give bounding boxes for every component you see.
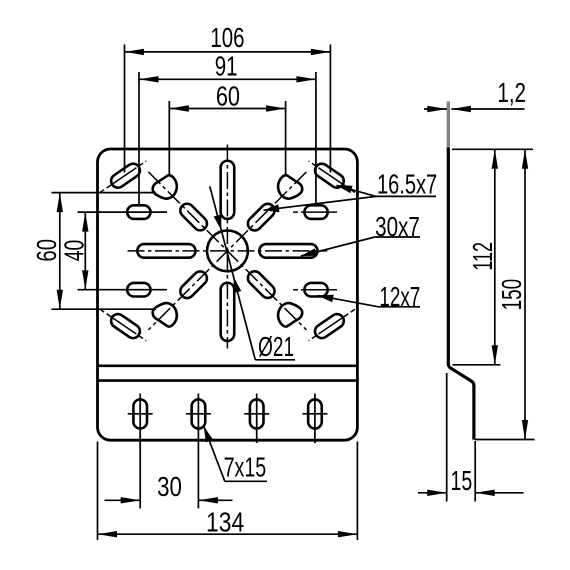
vertical centerline xyxy=(226,145,228,349)
leader 16.5x7 lines xyxy=(337,185,377,196)
bottom slot 7x15 #2 xyxy=(192,399,206,428)
slot 16.5x7 lower-right diagonal xyxy=(245,269,277,301)
svg-text:Ø21: Ø21 xyxy=(258,333,294,363)
corner slot 16.5x7 top-left xyxy=(108,161,142,190)
leader 30x7 lines xyxy=(301,237,375,256)
bottom slot 7x15 #3 xyxy=(250,399,264,428)
leader 16.5x7 arrows xyxy=(337,185,353,193)
slot 30x7 left xyxy=(137,244,195,258)
dim 1,2 line segments xyxy=(424,108,447,110)
oval 12x7 upper-right xyxy=(304,205,327,219)
bottom slot horizontal tick #4 xyxy=(302,413,327,415)
svg-text:91: 91 xyxy=(215,52,238,83)
oval 12x7 lower-left xyxy=(127,283,150,297)
central hole D21 xyxy=(207,231,248,272)
dim 134 extension lines xyxy=(97,442,99,541)
dim 40 left extension lines xyxy=(78,211,168,213)
corner slot centerline top-right xyxy=(309,161,355,193)
dim 134 arrows xyxy=(98,531,118,537)
svg-text:15: 15 xyxy=(451,466,473,497)
corner slot 16.5x7 bottom-left xyxy=(108,311,142,340)
slot 16.5x7 lower-left diagonal xyxy=(177,269,209,301)
dim 106 extension lines xyxy=(124,45,126,173)
dim 112 arrows xyxy=(492,149,498,169)
bottom slot 7x15 #1 xyxy=(133,399,147,428)
leader 7x15 line xyxy=(204,427,225,482)
bottom slot centerline #3 xyxy=(256,394,258,444)
corner slot centerline bottom-right xyxy=(309,309,355,341)
dim 60 left extension lines xyxy=(52,192,157,194)
bottom slot horizontal tick #2 xyxy=(186,413,211,415)
diagonal centerline TR-BL xyxy=(148,172,306,330)
svg-text:134: 134 xyxy=(206,507,244,537)
bend line lower xyxy=(98,379,358,382)
bend line upper xyxy=(98,364,358,367)
dim 15 line segments xyxy=(418,492,447,494)
plate outline (front view 134x150) xyxy=(98,149,358,440)
svg-text:40: 40 xyxy=(60,240,90,261)
oval 12x7 lower-right xyxy=(304,283,327,297)
corner slot centerline bottom-left xyxy=(100,309,146,341)
dim 40 left line xyxy=(84,212,86,290)
teardrop hole upper-left xyxy=(153,175,177,199)
slot 16.5x7 upper-right diagonal xyxy=(245,201,277,233)
bottom slot horizontal tick #3 xyxy=(244,413,269,415)
teardrop hole lower-right xyxy=(278,303,302,327)
bottom slot centerline #4 xyxy=(314,394,316,444)
dim 60 top extension lines xyxy=(168,101,170,176)
svg-text:106: 106 xyxy=(210,23,244,54)
oval centerline tick upper-right xyxy=(293,211,338,213)
dim 134 line xyxy=(98,533,358,535)
corner slot 16.5x7 top-right xyxy=(312,161,346,190)
svg-text:60: 60 xyxy=(32,239,63,262)
svg-text:30: 30 xyxy=(157,472,182,503)
svg-text:12x7: 12x7 xyxy=(379,281,420,311)
dim 91 line xyxy=(139,78,316,80)
dim 60 left arrows xyxy=(57,193,63,213)
svg-text:16.5x7: 16.5x7 xyxy=(377,170,437,201)
svg-text:30x7: 30x7 xyxy=(375,212,420,243)
svg-text:60: 60 xyxy=(216,82,240,112)
teardrop hole upper-right xyxy=(278,175,302,199)
svg-text:7x15: 7x15 xyxy=(224,453,267,484)
leader 30x7 arrow xyxy=(301,248,317,256)
slot 30x7 right xyxy=(259,244,317,258)
slot 16.5x7 upper-left diagonal xyxy=(177,201,209,233)
leader D21 line xyxy=(210,186,256,359)
dim 106 arrows xyxy=(125,49,144,55)
dim 91 extension lines xyxy=(138,72,140,206)
horizontal centerline xyxy=(128,250,328,252)
svg-text:112: 112 xyxy=(467,242,498,271)
dim 60 top line xyxy=(169,108,285,110)
side bend extension line xyxy=(453,364,501,366)
corner slot 16.5x7 bottom-right xyxy=(312,311,346,340)
oval 12x7 upper-left xyxy=(127,205,150,219)
slot 30x7 top xyxy=(221,161,235,219)
dim 60 left line xyxy=(59,193,61,310)
dim 150 arrows xyxy=(522,149,528,169)
svg-text:1,2: 1,2 xyxy=(497,78,526,109)
side bottom extension line xyxy=(475,439,535,441)
leader D21 arrows xyxy=(214,215,222,231)
leader 12x7 arrow xyxy=(318,295,334,303)
dim 40 left arrows xyxy=(82,212,88,232)
dim 60 top arrows xyxy=(169,105,189,111)
side view sheet profile xyxy=(448,147,474,439)
bottom slot 7x15 #4 xyxy=(308,399,322,428)
diagonal centerline TL-BR xyxy=(148,172,306,330)
teardrop hole lower-left xyxy=(153,303,177,327)
svg-text:150: 150 xyxy=(498,279,528,311)
dim 15 arrows xyxy=(427,490,447,496)
side view thickness extension lines xyxy=(447,102,450,147)
dim 106 line xyxy=(125,51,331,53)
bottom slot centerline #2 xyxy=(197,394,199,509)
dim 30 arrows xyxy=(121,497,141,503)
bottom slot horizontal tick #1 xyxy=(128,413,153,415)
leader 7x15 arrow xyxy=(204,427,213,443)
dim 15 extension lines xyxy=(446,373,448,502)
corner slot centerline top-left xyxy=(100,161,146,193)
slot 30x7 bottom xyxy=(221,283,235,341)
leader 12x7 lines xyxy=(318,296,379,307)
dim 112 line xyxy=(494,149,496,364)
bottom slot centerline #1 xyxy=(139,394,141,509)
side top extension line xyxy=(452,148,533,150)
dim 91 arrows xyxy=(139,76,159,82)
dim 1,2 arrows xyxy=(427,106,447,112)
dim 150 line xyxy=(524,149,526,439)
oval centerline tick lower-right xyxy=(293,289,338,291)
dim 30 line segments xyxy=(105,499,141,501)
